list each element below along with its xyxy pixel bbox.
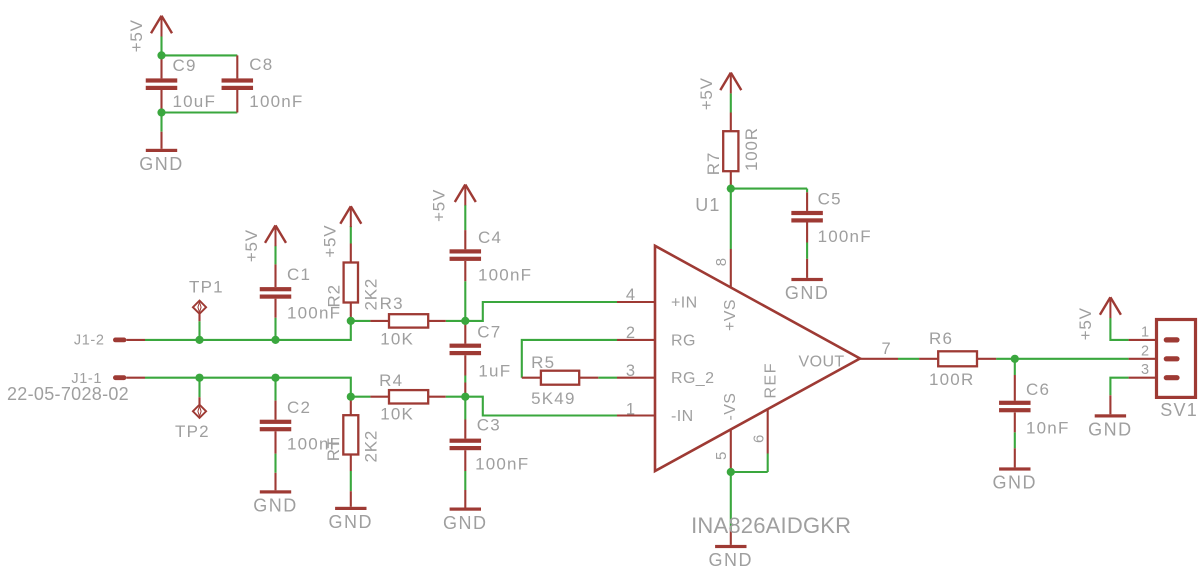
svg-text:+5V: +5V: [321, 225, 340, 258]
svg-text:+5V: +5V: [430, 189, 449, 222]
svg-text:INA826AIDGKR: INA826AIDGKR: [691, 513, 851, 538]
svg-text:C7: C7: [477, 323, 501, 342]
svg-text:+5V: +5V: [697, 77, 716, 110]
svg-text:C8: C8: [249, 55, 273, 74]
svg-text:+5V: +5V: [127, 19, 146, 52]
svg-text:REF: REF: [763, 362, 780, 399]
svg-text:-VS: -VS: [722, 393, 739, 421]
svg-text:R2: R2: [325, 284, 344, 307]
svg-text:C5: C5: [818, 190, 842, 209]
svg-text:R6: R6: [929, 329, 953, 348]
svg-text:100nF: 100nF: [818, 227, 872, 246]
svg-text:1: 1: [626, 401, 636, 419]
svg-text:C3: C3: [477, 416, 501, 435]
svg-text:-IN: -IN: [671, 408, 694, 425]
svg-text:+VS: +VS: [722, 299, 739, 331]
svg-text:GND: GND: [139, 154, 184, 174]
svg-text:3: 3: [626, 362, 636, 380]
svg-text:C9: C9: [173, 56, 197, 75]
svg-text:100R: 100R: [929, 370, 974, 389]
svg-text:SV1: SV1: [1160, 400, 1198, 420]
svg-text:C2: C2: [287, 398, 311, 417]
svg-text:100nF: 100nF: [249, 92, 303, 111]
svg-text:U1: U1: [695, 195, 720, 215]
svg-text:+IN: +IN: [671, 295, 698, 312]
svg-text:8: 8: [713, 257, 730, 266]
svg-text:3: 3: [1141, 362, 1149, 378]
svg-text:100nF: 100nF: [478, 266, 532, 285]
svg-text:C6: C6: [1026, 380, 1050, 399]
svg-text:5K49: 5K49: [531, 389, 576, 408]
svg-text:1: 1: [1141, 325, 1149, 341]
svg-text:GND: GND: [329, 512, 374, 532]
svg-text:10K: 10K: [380, 329, 414, 348]
svg-text:R4: R4: [379, 371, 403, 390]
svg-text:10nF: 10nF: [1026, 418, 1070, 437]
svg-text:RG: RG: [671, 332, 696, 349]
svg-text:7: 7: [882, 340, 892, 358]
svg-text:GND: GND: [253, 496, 298, 516]
svg-text:22-05-7028-02: 22-05-7028-02: [7, 384, 129, 404]
svg-text:5: 5: [713, 451, 730, 460]
svg-text:GND: GND: [993, 473, 1038, 493]
svg-text:TP1: TP1: [189, 278, 224, 297]
svg-text:10K: 10K: [380, 405, 414, 424]
svg-text:100nF: 100nF: [475, 455, 529, 474]
svg-text:100R: 100R: [742, 127, 761, 171]
svg-text:2: 2: [1141, 343, 1149, 359]
svg-text:RG_2: RG_2: [671, 370, 714, 387]
svg-text:R3: R3: [380, 294, 404, 313]
svg-text:GND: GND: [709, 550, 754, 570]
svg-text:GND: GND: [785, 283, 830, 303]
svg-text:J1-2: J1-2: [74, 332, 105, 348]
svg-text:10uF: 10uF: [173, 92, 217, 111]
svg-text:GND: GND: [443, 513, 488, 533]
svg-text:RT: RT: [324, 437, 343, 461]
svg-text:2K2: 2K2: [362, 278, 381, 311]
svg-text:+5V: +5V: [1076, 307, 1095, 340]
svg-text:6: 6: [750, 434, 767, 443]
svg-text:+5V: +5V: [242, 229, 261, 262]
svg-text:TP2: TP2: [175, 422, 210, 441]
svg-text:1uF: 1uF: [478, 362, 511, 381]
svg-text:C1: C1: [287, 265, 311, 284]
svg-text:4: 4: [626, 286, 636, 304]
svg-text:2: 2: [626, 324, 636, 342]
svg-text:VOUT: VOUT: [799, 354, 845, 371]
svg-text:GND: GND: [1088, 420, 1133, 440]
svg-text:C4: C4: [478, 228, 502, 247]
svg-text:2K2: 2K2: [362, 430, 381, 463]
svg-text:R5: R5: [531, 353, 555, 372]
svg-text:R7: R7: [704, 152, 723, 175]
